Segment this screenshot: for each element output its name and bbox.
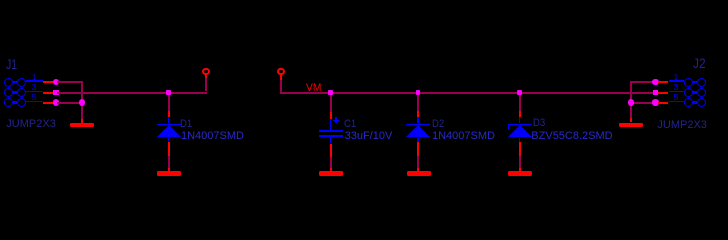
connector J1 row3 link line — [13, 101, 18, 103]
wire from right terminal down to VM net — [280, 80, 282, 92]
diode D2 name label — [432, 119, 444, 130]
wire J1 vertical to ground — [81, 81, 83, 119]
connector J2 pin 1 number — [674, 73, 679, 82]
wire J2 vertical to ground — [630, 81, 632, 118]
junction on J1 pin1 net — [53, 79, 59, 85]
connector J1 pin 5 red pin — [43, 102, 54, 104]
ground pin stub at J1 — [81, 119, 83, 123]
connector J1 row1 circle A — [4, 78, 13, 87]
ground pin stub at J2 — [630, 118, 632, 123]
connector J2 row1 circle A — [697, 78, 706, 87]
connector J1 row1 link line — [13, 81, 18, 83]
wire D1 top — [168, 95, 170, 112]
diode D1 bottom pin (red) — [168, 142, 170, 156]
connector J2 row2 circle B — [684, 88, 693, 97]
capacitor C1 bottom pin (red) — [330, 144, 332, 158]
capacitor C1 bottom blue stub — [330, 137, 332, 143]
connector J1 pin 1 line — [26, 80, 43, 82]
connector J2 pin 1 line — [669, 80, 685, 82]
diode D1 bottom blue stub — [168, 138, 170, 143]
wire D2 bottom to ground — [417, 156, 419, 168]
wire C1 top — [330, 95, 332, 113]
connector J1 pin 5 number — [32, 93, 37, 102]
connector J2 row1 circle B — [684, 78, 693, 87]
connector J2 row3 circle B — [684, 98, 693, 107]
diode D2 value label — [432, 131, 495, 142]
wire J2 row1 from vertical to pin — [631, 81, 653, 83]
ground symbol under D2 — [407, 171, 431, 176]
connector J2 row2 circle A — [697, 88, 706, 97]
ground symbol under D1 — [157, 171, 181, 176]
connector J1 name label — [6, 57, 17, 71]
connector J2 row1 link line — [692, 81, 697, 83]
junction at D2 top — [416, 90, 421, 95]
diode D2 top pin (red) — [417, 111, 419, 117]
connector J1 pin 1 red pin — [43, 81, 54, 83]
ground symbol at J1 — [70, 123, 94, 128]
capacitor C1 value label — [345, 131, 393, 142]
connector J1 row2 circle A — [4, 88, 13, 97]
connector J2 row3 circle A — [697, 98, 706, 107]
capacitor C1 top blue stub — [330, 119, 332, 130]
connector J1 row3 circle B — [17, 98, 26, 107]
connector J1 row1 circle B — [17, 78, 26, 87]
capacitor C1 top plate — [319, 130, 343, 132]
zener D3 name label — [533, 118, 545, 129]
wire J2 row3 from vertical to pin — [632, 102, 653, 104]
connector J1 pin 5 line — [26, 101, 43, 103]
diode D1 value label — [181, 131, 244, 142]
connector J2 pin 5 line — [669, 101, 685, 103]
zener D3 top pin (red) — [519, 111, 521, 117]
connector J2 pin 3 number — [674, 83, 679, 92]
diode D1 name label — [180, 119, 192, 130]
ground pin stub under D1 — [168, 168, 170, 172]
wire J1 pin3 net to terminal corner — [57, 92, 207, 94]
zener D3 top blue stub — [519, 117, 521, 123]
ground pin stub under D2 — [417, 168, 419, 172]
connector J2 name label — [693, 56, 706, 70]
diode D2 top blue stub — [417, 117, 419, 123]
diode D2 triangle — [406, 125, 430, 137]
connector J1 value label JUMP2X3 — [6, 119, 56, 130]
terminal left red pin — [205, 75, 207, 79]
zener D3 bottom blue stub — [519, 138, 521, 143]
junction J1 vertical at row3 — [79, 99, 85, 105]
ground symbol under D3 — [508, 171, 532, 176]
connector J1 pin 3 red pin — [43, 92, 54, 94]
junction at D3 top — [517, 90, 522, 95]
connector J2 row3 link line — [692, 101, 697, 103]
connector J2 pin 5 number — [674, 93, 679, 102]
diode D1 top pin (red) — [168, 111, 170, 117]
connector J1 row2 circle B — [17, 88, 26, 97]
ground symbol at J2 — [619, 123, 643, 128]
capacitor C1 plus sign horizontal — [333, 120, 339, 122]
connector J2 pin 5 red pin — [658, 102, 668, 104]
capacitor C1 plus sign vertical — [335, 117, 337, 123]
diode D2 cathode bar — [406, 124, 430, 126]
connector J2 pin 3 red pin — [658, 92, 668, 94]
zener D3 left hook — [508, 125, 510, 130]
diode D2 bottom blue stub — [417, 138, 419, 143]
ground symbol under C1 — [319, 171, 343, 176]
wire J1 row1 to vertical — [57, 81, 83, 83]
zener D3 value label — [531, 131, 612, 142]
zener D3 triangle — [508, 125, 532, 137]
net label VM — [306, 83, 321, 94]
wire VM net horizontal — [280, 92, 654, 94]
junction at D1 top — [166, 90, 171, 95]
diode D1 cathode bar — [157, 124, 181, 126]
diode D1 triangle — [157, 125, 181, 137]
connector J1 pin 1 number — [32, 73, 37, 82]
diode D1 top blue stub — [168, 117, 170, 123]
diode D2 bottom pin (red) — [417, 142, 419, 156]
junction on J1 pin5 net — [53, 99, 59, 105]
wire J1 row3 to vertical — [57, 102, 83, 104]
wire C1 bottom to ground — [330, 157, 332, 168]
connector J2 pin 1 red pin — [658, 81, 668, 83]
connector J1 row3 circle A — [4, 98, 13, 107]
junction on J2 pin1 net — [652, 79, 658, 85]
connector J2 row2 link line — [692, 91, 697, 93]
capacitor C1 name label — [344, 119, 356, 130]
connector J2 pin 3 line — [669, 91, 685, 93]
zener D3 bottom pin (red) — [519, 142, 521, 156]
connector J1 row2 link line — [13, 91, 18, 93]
junction (square) on J1 pin3 net — [53, 90, 59, 96]
zener D3 cathode bar — [508, 124, 532, 126]
wire D3 bottom to ground — [519, 156, 521, 168]
terminal circle left (output O) — [202, 68, 210, 76]
junction on J2 pin5 net — [652, 99, 658, 105]
terminal right red pin — [280, 75, 282, 80]
capacitor C1 bottom plate — [319, 135, 343, 137]
ground pin stub under D3 — [519, 168, 521, 172]
junction (square) on J2 pin3 net — [653, 90, 659, 96]
wire D3 top — [519, 95, 521, 112]
wire D2 top — [417, 95, 419, 112]
connector J2 value label JUMP2X3 — [657, 120, 707, 131]
connector J1 pin 3 number — [32, 83, 37, 92]
capacitor C1 top pin (red) — [330, 112, 332, 119]
connector J1 pin 3 line — [26, 91, 43, 93]
ground pin stub under C1 — [330, 168, 332, 172]
wire from left terminal down to net — [205, 78, 207, 91]
junction at C1 top — [328, 90, 333, 95]
terminal circle right (input O) — [277, 68, 285, 76]
junction J2 vertical at row3 — [628, 99, 634, 105]
wire D1 bottom to ground — [168, 156, 170, 168]
